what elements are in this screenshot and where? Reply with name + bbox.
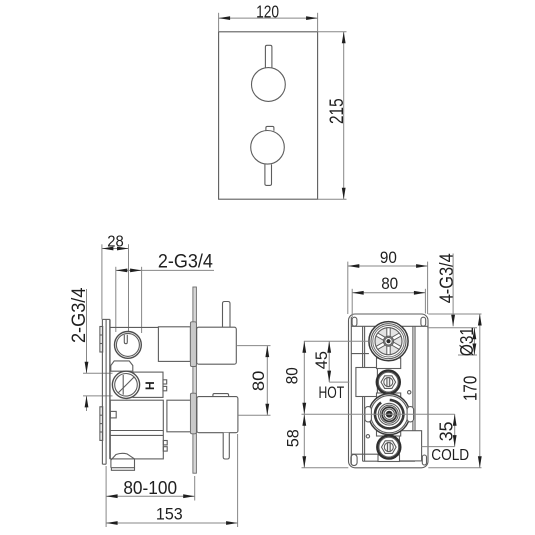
bottom knob circle (front view) xyxy=(251,131,285,165)
dimension 80 (handles) line xyxy=(266,346,268,416)
top knob spline: outer rings xyxy=(369,322,408,361)
drain spout dome xyxy=(111,453,135,467)
top knob stem (front view) xyxy=(265,45,272,68)
COLD port: hex xyxy=(382,441,397,454)
drain spout base plate xyxy=(111,468,134,471)
dimension O31 line xyxy=(473,328,475,355)
dimension 2-G3/4 (left) leader vertical xyxy=(86,289,88,373)
dimension 120 extension lines xyxy=(218,13,220,32)
mounting plate inner top line xyxy=(351,325,427,327)
mounting slot bottom-left xyxy=(351,454,357,465)
COLD inlet block xyxy=(399,431,421,461)
lower port barrel xyxy=(167,400,191,432)
dimension 215 extension lines xyxy=(318,31,347,33)
dimension 90 line xyxy=(348,265,428,267)
dimension 80 (top) extension lines xyxy=(351,289,353,317)
mounting plate outline xyxy=(349,314,429,468)
top knob hub xyxy=(384,336,394,346)
mounting slot bottom-right xyxy=(422,455,426,465)
COLD port: screw slot xyxy=(384,443,393,452)
dimension 2-G3/4 (left) extension lines xyxy=(83,372,113,374)
svg-text:HOT: HOT xyxy=(318,384,344,402)
trim plate collar top xyxy=(190,322,196,367)
cartridge C-ring xyxy=(375,400,403,428)
dimension 80-100 line xyxy=(106,495,195,497)
pedestal between cartridge and COLD xyxy=(377,428,401,436)
dimension 2-G3/4 (top) extension lines xyxy=(115,267,117,332)
HOT port: inner ring xyxy=(378,372,398,392)
dimension 153 extension line right xyxy=(237,434,239,527)
svg-text:Ø31: Ø31 xyxy=(457,327,477,356)
COLD port: outer ring xyxy=(377,436,400,459)
pedestal between HOT and cartridge xyxy=(377,393,401,401)
top knob pedestal xyxy=(377,358,401,369)
bottom handle notch xyxy=(213,394,229,397)
svg-text:80: 80 xyxy=(381,275,398,293)
dimension 80 (top) line xyxy=(352,292,425,294)
top port barrel xyxy=(158,327,190,362)
svg-text:58: 58 xyxy=(285,429,303,447)
hex boss between ports xyxy=(111,361,133,371)
svg-text:80: 80 xyxy=(284,367,302,384)
HOT port: screw slot xyxy=(384,378,393,387)
trim plate collar bottom xyxy=(190,393,196,434)
top knob circle (front view) xyxy=(252,68,286,102)
lower body left tab xyxy=(110,411,116,418)
svg-text:215: 215 xyxy=(327,98,348,124)
svg-text:35: 35 xyxy=(437,422,457,442)
dimension 80 (left) line xyxy=(303,341,305,414)
cartridge centerline xyxy=(302,413,455,415)
svg-text:4-G3/4: 4-G3/4 xyxy=(437,253,458,303)
mounting slot top-right xyxy=(421,317,426,326)
svg-text:90: 90 xyxy=(380,249,397,267)
svg-text:120: 120 xyxy=(256,1,279,21)
COLD leader line xyxy=(422,446,455,448)
mounting slot top-left xyxy=(352,317,357,326)
cartridge side lug right xyxy=(407,407,414,422)
mounting plate inner bottom line xyxy=(352,453,421,455)
dimension 153 line xyxy=(106,522,238,524)
dimension O31 extension lines xyxy=(427,327,477,329)
HOT port: hex xyxy=(381,376,396,389)
label 4-G3/4 leader xyxy=(452,254,454,327)
top handle stem (side) xyxy=(223,302,231,328)
thermostatic cartridge: outer rings xyxy=(369,394,410,435)
dimension 58 extension line bottom xyxy=(302,467,349,469)
mounting plate inner left line xyxy=(350,317,352,465)
lower body terminals xyxy=(163,441,167,445)
svg-text:45: 45 xyxy=(313,351,331,369)
valve body edges (back view) xyxy=(362,326,364,461)
svg-text:80-100: 80-100 xyxy=(123,477,177,498)
svg-text:80: 80 xyxy=(250,371,268,392)
dimension 120 line xyxy=(219,17,318,19)
bottom handle stem (side) xyxy=(223,433,229,459)
COLD port: inner ring xyxy=(379,437,399,457)
cartridge side lug left xyxy=(365,407,372,422)
svg-text:28: 28 xyxy=(107,233,124,250)
middle port circle (side) xyxy=(112,371,139,398)
svg-text:H: H xyxy=(143,381,157,390)
bottom handle body (side) xyxy=(197,397,238,433)
dimension 90 extension lines xyxy=(347,262,349,314)
middle port chord detail xyxy=(122,375,124,395)
screw hole lower-left xyxy=(366,435,369,438)
body step line left of knob xyxy=(351,353,369,355)
dimension 35 line xyxy=(454,414,456,446)
lower body block xyxy=(110,400,163,459)
pedestal below COLD xyxy=(378,455,400,462)
dimension 170 extension lines xyxy=(428,313,481,315)
dimension 80 (handles) extension lines xyxy=(237,345,270,347)
wall tile hatch cells upper xyxy=(100,327,103,353)
svg-text:153: 153 xyxy=(156,504,183,523)
top port circle (side) xyxy=(115,332,142,359)
svg-text:COLD: COLD xyxy=(431,447,469,464)
top knob spline: spoked disc xyxy=(375,328,402,355)
middle port diagonal xyxy=(118,377,134,393)
dimension 170 line xyxy=(479,314,481,468)
knob centerline extension xyxy=(304,340,369,342)
screw hole upper-right xyxy=(408,391,411,394)
bottom knob stem (front view) xyxy=(265,164,272,185)
dimension 28 extension lines xyxy=(101,244,103,319)
cartridge terminal tabs xyxy=(163,380,167,384)
svg-text:2-G3/4: 2-G3/4 xyxy=(158,252,213,273)
top handle body (side) xyxy=(197,327,237,364)
dimension 45 line xyxy=(328,341,330,382)
dimension 2-G3/4 (top) leader line xyxy=(116,269,214,271)
dimension 215 line xyxy=(343,32,345,199)
trim plate front view outline xyxy=(219,32,318,199)
dimension 80-100 extension lines xyxy=(105,466,107,527)
svg-text:170: 170 xyxy=(461,376,481,401)
cartridge inner rings xyxy=(378,403,400,425)
bottom knob notch (front view) xyxy=(266,126,274,130)
wall tile hatch cells lower xyxy=(100,407,103,441)
valve body top edge xyxy=(110,326,158,328)
trim plate (edge-on) xyxy=(193,287,197,473)
valve body bottom edge xyxy=(363,460,415,462)
dimension 28 line xyxy=(102,248,129,250)
HOT port: outer ring xyxy=(377,371,400,394)
middle cartridge housing xyxy=(133,372,163,397)
dimension 58 line xyxy=(303,414,305,468)
HOT inlet block xyxy=(356,368,378,397)
top port keyway xyxy=(124,335,127,344)
top knob spline: spokes xyxy=(376,328,401,355)
HOT leader line xyxy=(329,381,349,383)
wall plate section xyxy=(102,319,110,464)
